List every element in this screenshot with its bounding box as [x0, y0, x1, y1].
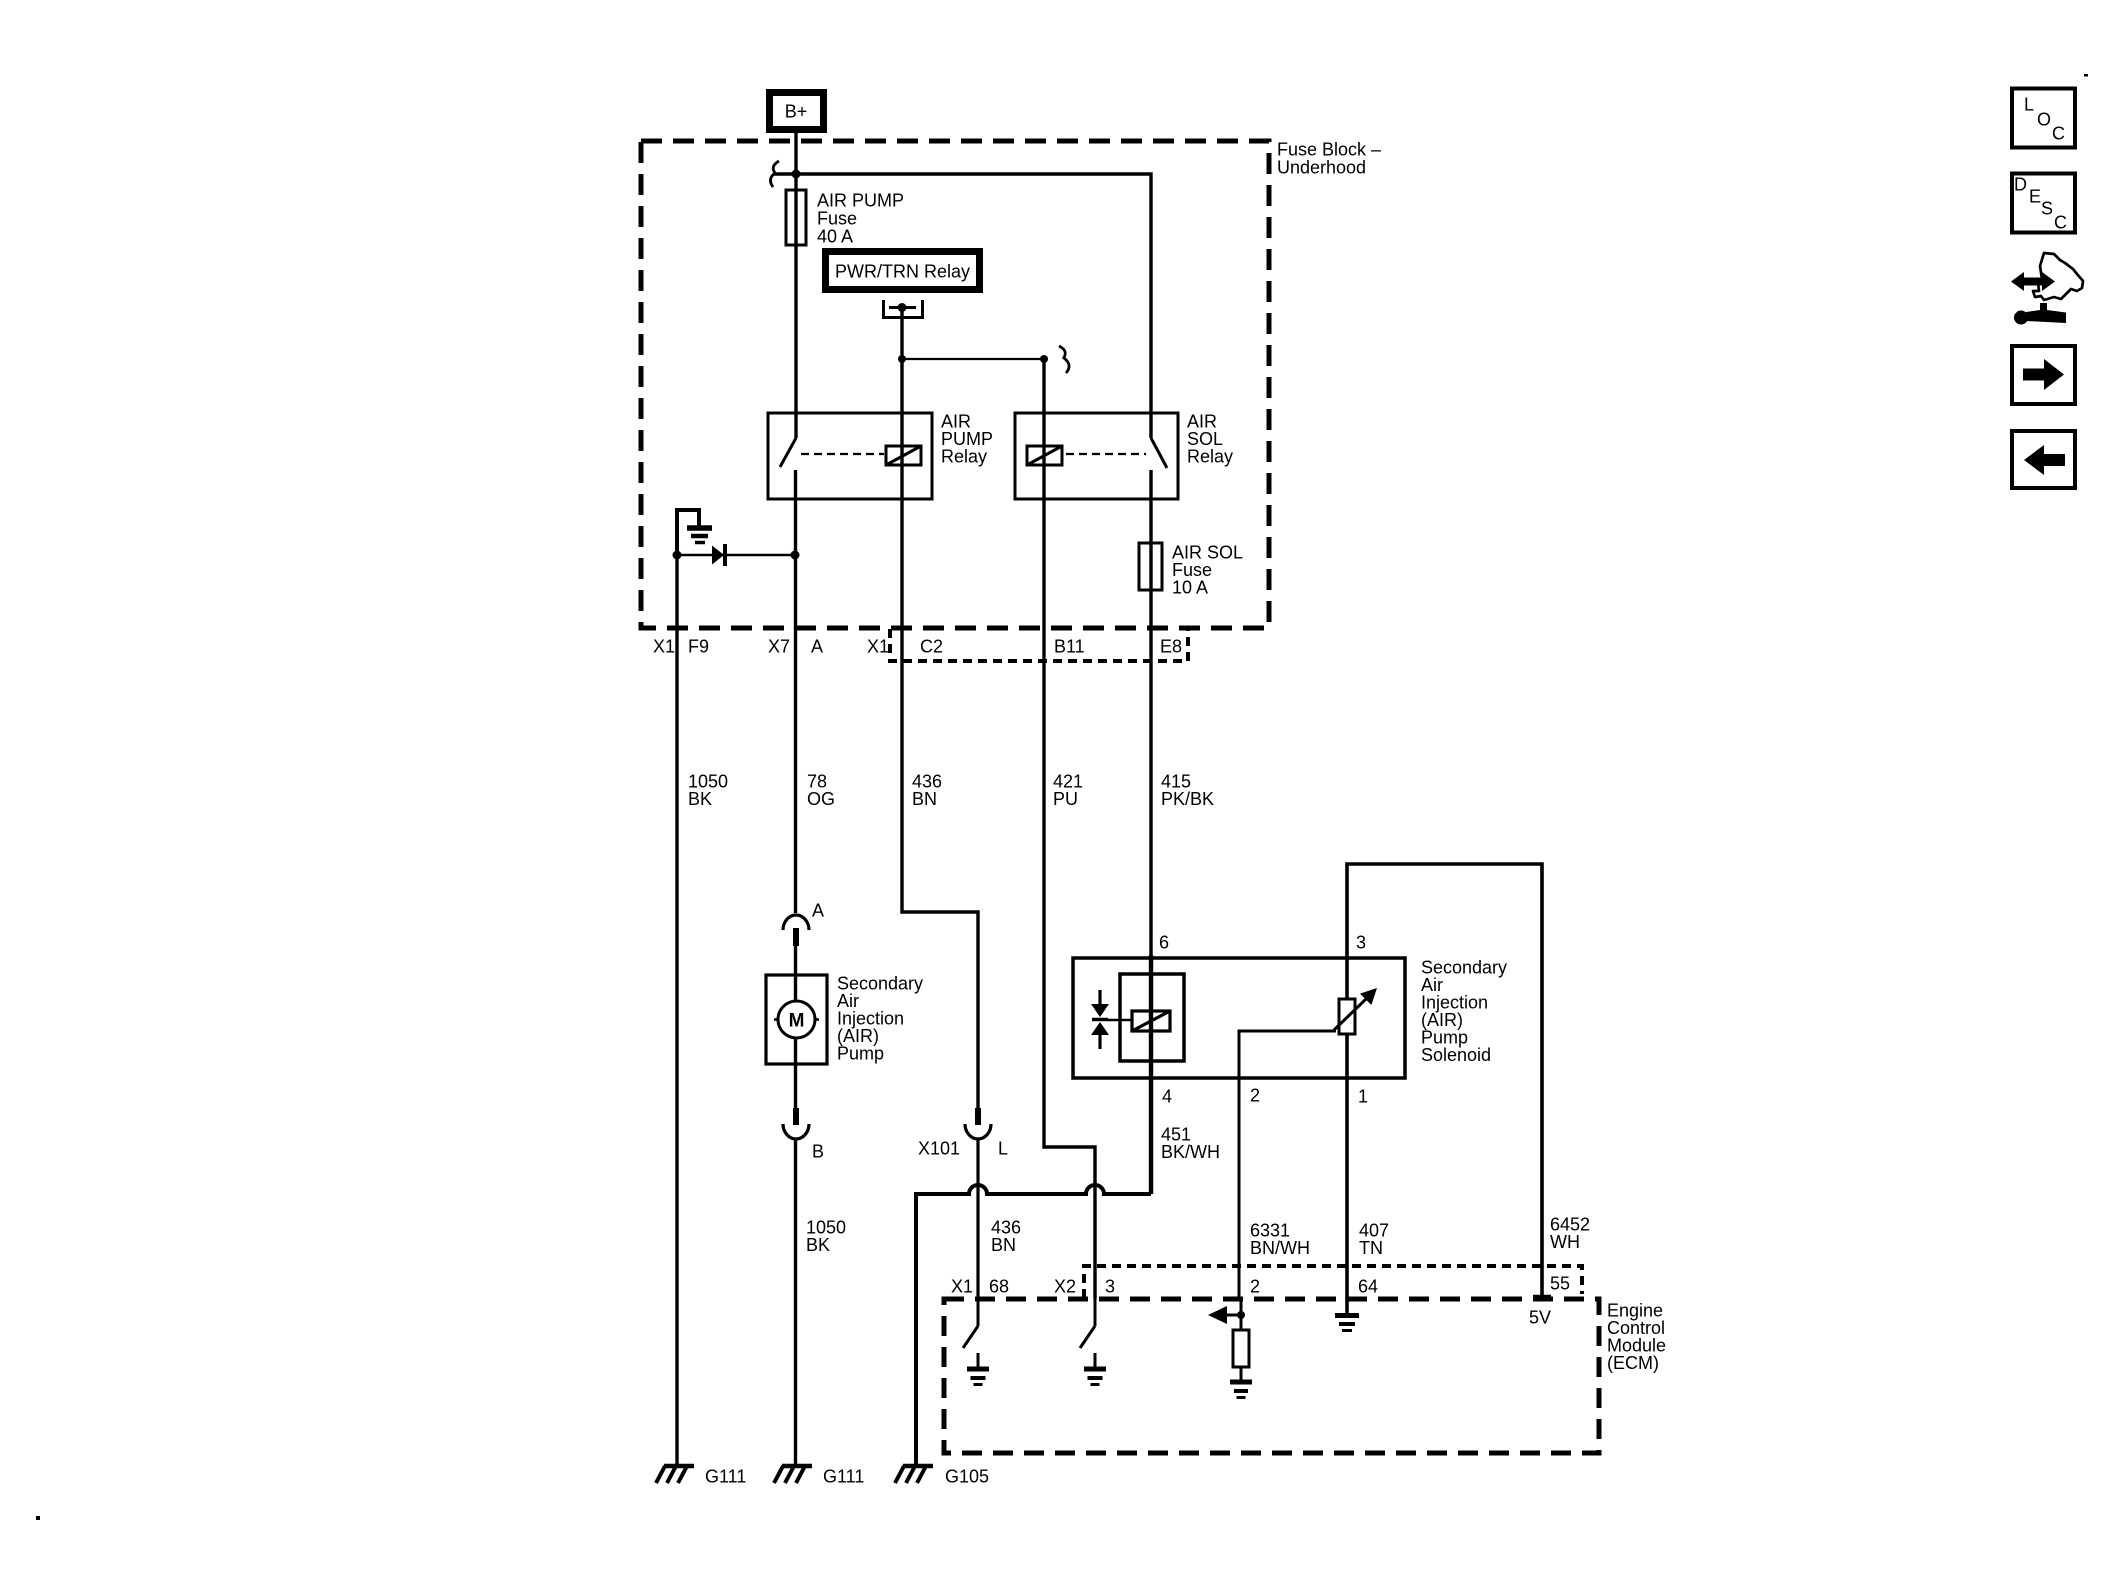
label 415 PK/BK: [1161, 772, 1214, 810]
junction dot coil bus right: [1040, 355, 1048, 363]
stray mark bottom left: [36, 1516, 40, 1520]
svg-text:PWR/TRN Relay: PWR/TRN Relay: [835, 262, 970, 282]
PWR/TRN relay coil terminal bracket: [884, 300, 923, 318]
wire bus to AIR SOL relay switch: [774, 174, 1151, 438]
AIR SOL relay dashed link: [1066, 453, 1146, 455]
ground G111 center: [774, 1466, 864, 1487]
AIR PUMP relay dashed link: [801, 453, 884, 455]
svg-text:S: S: [2041, 199, 2053, 219]
svg-text:X1: X1: [653, 637, 675, 657]
splice hook at B+ bus: [770, 161, 779, 187]
diode in fuse block: [677, 544, 795, 566]
svg-text:BN: BN: [912, 789, 937, 809]
label 421 PU: [1053, 772, 1083, 810]
wire 407 TN pin1 to ECM pin 64: [1347, 1034, 1389, 1299]
svg-text:X1: X1: [951, 1277, 973, 1297]
svg-text:E: E: [2029, 187, 2041, 207]
svg-text:AIR PUMP: AIR PUMP: [817, 191, 904, 211]
svg-text:X2: X2: [1054, 1277, 1076, 1297]
svg-text:E8: E8: [1160, 637, 1182, 657]
Secondary Air Injection (AIR) Pump motor: [766, 975, 827, 1064]
solenoid position sensor (variable): [1334, 988, 1377, 1034]
splice hook right of coil bus: [1059, 346, 1069, 373]
label 451 BK/WH: [1161, 1125, 1220, 1163]
wire 1050 BK center branch to G111: [796, 1139, 847, 1466]
ECM input pin 2 with pull resistor: [1208, 1299, 1252, 1398]
svg-text:B+: B+: [785, 102, 808, 122]
solenoid coil: [1132, 1011, 1170, 1031]
link TVS to coil: [1108, 1019, 1132, 1022]
junction dot at B+ bus: [792, 170, 801, 179]
svg-text:C2: C2: [920, 637, 943, 657]
fuse block bottom pin labels: [653, 637, 1182, 657]
svg-text:G105: G105: [945, 1467, 989, 1487]
connector B: [783, 1108, 824, 1162]
svg-text:B: B: [812, 1142, 824, 1162]
AIR PUMP relay coil: [886, 446, 921, 465]
AIR PUMP relay switch arm: [780, 438, 796, 467]
PWR/TRN Relay box: [826, 252, 980, 290]
svg-text:BK: BK: [688, 789, 712, 809]
AIR SOL relay switch arm: [1151, 438, 1167, 468]
svg-text:OG: OG: [807, 789, 835, 809]
svg-text:2: 2: [1250, 1277, 1260, 1297]
svg-text:Pump: Pump: [837, 1044, 884, 1064]
svg-text:4: 4: [1162, 1087, 1172, 1107]
svg-text:6: 6: [1159, 933, 1169, 953]
ECM pin labels: [951, 1274, 1570, 1328]
junction dot at PWR/TRN terminal: [898, 303, 907, 312]
sidebar icon LOC: [2012, 89, 2075, 148]
Fuse Block Underhood dashed enclosure: [641, 141, 1269, 628]
connector X1 dotted outline (fuse block bottom): [890, 629, 1188, 661]
wire 6452 WH pin3 loop to ECM pin 55: [1347, 864, 1590, 1297]
svg-text:BK/WH: BK/WH: [1161, 1142, 1220, 1162]
ground tap inside fuse block: [677, 510, 712, 555]
svg-text:40 A: 40 A: [817, 227, 853, 247]
svg-text:1: 1: [1358, 1087, 1368, 1107]
label 436 BN upper: [912, 772, 942, 810]
svg-text:68: 68: [989, 1277, 1009, 1297]
ECM driver switch pin 3: [1080, 1299, 1106, 1385]
svg-text:D: D: [2014, 175, 2027, 195]
svg-text:BK: BK: [806, 1235, 830, 1255]
sidebar icon arrow right: [2012, 346, 2075, 404]
Secondary AIR Pump Solenoid outer box: [1073, 958, 1405, 1078]
sidebar icon wiring harness (double arrow, outline, wrench): [2008, 253, 2084, 325]
label Engine Control Module (ECM): [1607, 1301, 1666, 1374]
solenoid pin labels: [1159, 933, 1368, 1107]
svg-text:PK/BK: PK/BK: [1161, 789, 1214, 809]
wire 415 PK/BK and 451 BK/WH trunk: [1149, 470, 1152, 1194]
TVS diode pair: [1091, 990, 1109, 1049]
ground bus wire to G105 with crossover hops: [916, 1185, 1151, 1466]
ECM dashed enclosure: [944, 1299, 1599, 1453]
label AIR PUMP Relay: [941, 412, 993, 467]
stray mark top right: [2084, 74, 2088, 77]
sidebar icon arrow left: [2012, 431, 2075, 488]
label Secondary Air Injection (AIR) Pump Solenoid: [1421, 958, 1507, 1066]
wire 78 OG pump feed: [796, 470, 836, 913]
label Fuse Block Underhood: [1277, 140, 1381, 178]
connector X101: [918, 1108, 1008, 1159]
AIR PUMP Relay box: [768, 413, 932, 499]
svg-text:3: 3: [1356, 933, 1366, 953]
wire coil link PWR/TRN to AIR SOL coil: [902, 358, 1044, 360]
connector X2 dotted outline (ECM top): [1084, 1266, 1582, 1298]
ground G105: [895, 1466, 989, 1487]
svg-text:BN/WH: BN/WH: [1250, 1238, 1310, 1258]
fuse AIR PUMP 40A: [786, 190, 806, 245]
AIR SOL Relay box: [1015, 413, 1178, 499]
label AIR SOL Fuse 10 A: [1172, 543, 1243, 598]
svg-text:Relay: Relay: [941, 447, 987, 467]
svg-text:64: 64: [1358, 1277, 1378, 1297]
AIR SOL relay coil: [1027, 446, 1062, 465]
svg-text:G111: G111: [705, 1467, 746, 1487]
svg-text:TN: TN: [1359, 1238, 1383, 1258]
svg-text:Fuse Block –: Fuse Block –: [1277, 140, 1381, 160]
svg-text:(ECM): (ECM): [1607, 1353, 1659, 1373]
junction dot diode right: [791, 551, 800, 560]
wire 6331 BN/WH wiper to ECM pin 2: [1239, 1031, 1336, 1299]
svg-text:O: O: [2037, 110, 2051, 130]
junction dot diode left: [673, 551, 682, 560]
svg-text:PU: PU: [1053, 789, 1078, 809]
svg-text:M: M: [789, 1011, 805, 1032]
svg-text:5V: 5V: [1529, 1308, 1551, 1328]
svg-text:55: 55: [1550, 1274, 1570, 1294]
wire 1050 BK left branch to G111: [677, 555, 728, 1466]
svg-text:WH: WH: [1550, 1232, 1580, 1252]
ECM ground pin 64: [1335, 1299, 1359, 1331]
wire 436 BN from PWR/TRN relay through AIR PUMP relay coil to X101: [902, 308, 978, 1111]
svg-text:G111: G111: [823, 1467, 864, 1487]
svg-text:X1: X1: [867, 637, 889, 657]
svg-text:C: C: [2052, 124, 2065, 144]
ECM driver switch pin 68: [963, 1299, 989, 1385]
svg-text:Solenoid: Solenoid: [1421, 1045, 1491, 1065]
svg-text:F9: F9: [688, 637, 709, 657]
svg-text:10 A: 10 A: [1172, 578, 1208, 598]
power terminal B+: [770, 93, 824, 130]
label AIR SOL Relay: [1187, 412, 1233, 467]
ECM 5V reference pin 55 terminal tick: [1533, 1295, 1551, 1300]
fuse AIR SOL 10A: [1139, 543, 1162, 590]
svg-text:X7: X7: [768, 637, 790, 657]
wire into pump motor: [794, 946, 797, 1108]
svg-text:B11: B11: [1054, 637, 1085, 657]
svg-text:L: L: [2024, 95, 2034, 115]
svg-text:X101: X101: [918, 1139, 960, 1159]
svg-text:L: L: [998, 1139, 1008, 1159]
svg-text:A: A: [812, 901, 824, 921]
label AIR PUMP Fuse 40 A: [817, 191, 904, 247]
svg-text:Underhood: Underhood: [1277, 158, 1366, 178]
label Secondary Air Injection (AIR) Pump: [837, 974, 923, 1064]
svg-text:3: 3: [1105, 1277, 1115, 1297]
svg-text:Fuse: Fuse: [817, 209, 857, 229]
solenoid valve inner box: [1120, 974, 1184, 1061]
wire B+ feed to AIR PUMP relay switch: [794, 133, 797, 438]
ground G111 left: [656, 1466, 746, 1487]
sidebar icon DESC: [2012, 174, 2075, 233]
svg-text:Relay: Relay: [1187, 447, 1233, 467]
svg-text:2: 2: [1250, 1086, 1260, 1106]
svg-text:C: C: [2054, 213, 2067, 233]
junction dot coil bus left: [898, 355, 906, 363]
connector A: [783, 901, 824, 947]
wire 421 PU from AIR SOL relay coil to ECM pin 3: [1044, 359, 1095, 1299]
svg-text:BN: BN: [991, 1235, 1016, 1255]
svg-text:A: A: [811, 637, 823, 657]
wire 436 BN below X101 to ECM pin 68: [978, 1139, 1021, 1299]
